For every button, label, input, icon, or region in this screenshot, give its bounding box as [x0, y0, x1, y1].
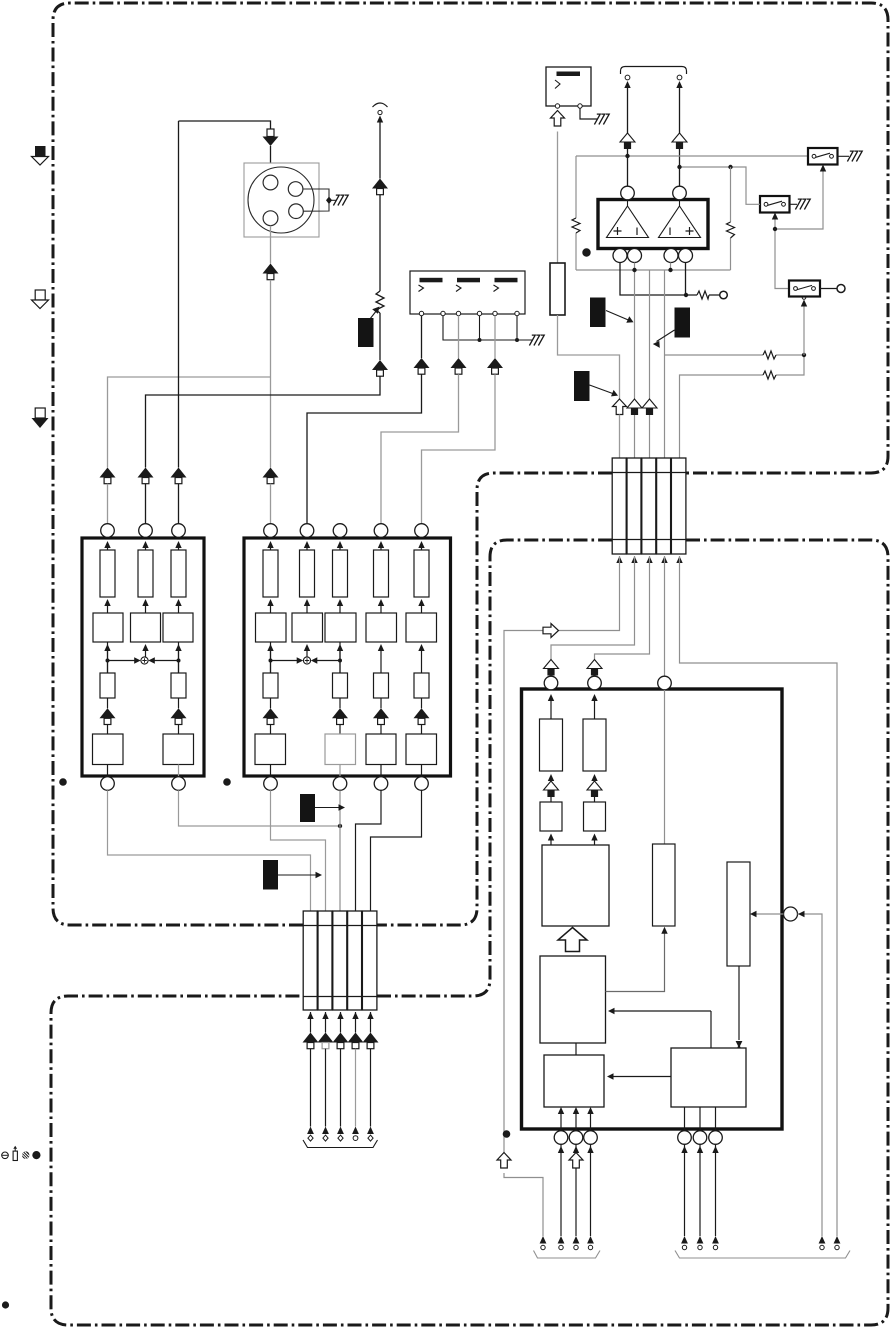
wire: jack ground bus: [443, 316, 533, 340]
boxM col4 gain block: [366, 613, 397, 642]
box1 col3 trim block: [171, 673, 186, 698]
single jack (line out) box: [546, 67, 591, 106]
switch S1 (mute): [808, 148, 838, 165]
connector arrow feeding box1 col2: [138, 468, 154, 484]
boxM col3 gain block: [325, 613, 356, 642]
wire: resistor down to connector arrow: [379, 313, 381, 360]
boxM sum node: [303, 657, 310, 664]
boxM col4 bottom pin: [374, 777, 388, 791]
wire: amp L- down across to R+ with sense resistor and test point: [620, 263, 720, 296]
analog block box 2 (middle): [244, 538, 451, 776]
boxM col1 bottom pin: [264, 777, 278, 791]
jack chevron 1: [419, 285, 424, 292]
leader arrow from blob: [606, 311, 630, 321]
wire decoder2 to latch2 with arrow: [591, 774, 597, 781]
decoder block 2: [583, 719, 606, 771]
wire: hollow arrow to CN1 col1: [619, 415, 621, 459]
wire: jack line 2 elbow to middle IC col4: [381, 374, 459, 524]
jack contact bar 2: [457, 278, 480, 283]
ground (S1): [847, 151, 862, 161]
boxM col1 top pin: [264, 524, 278, 538]
leader arrow from blob: [278, 874, 318, 876]
block A (signal processor): [542, 845, 609, 926]
arrowheads into CN1 from below: [616, 556, 622, 563]
block C bottom pins wires with arrows: [561, 1114, 591, 1131]
arrow (hollow head, filled square) HP R: [672, 133, 687, 149]
boxM col2 wire filter to gain block: [304, 599, 310, 606]
single jack chevron: [555, 80, 560, 89]
block F (motor control): [671, 1048, 746, 1107]
connector arrow feeding box1 col1: [100, 468, 116, 484]
level block (tall narrow): [550, 263, 565, 315]
brace under CN2 terminals: [303, 1140, 378, 1148]
wire: CN1 col2 to DSP pin1: [551, 556, 635, 660]
connector arrow on mic line: [372, 179, 388, 195]
boxM col3 wire filter to gain block: [337, 599, 343, 606]
wire: long left bus elbow to terminal: [504, 1173, 543, 1236]
boxM col5 input filter block: [421, 548, 423, 550]
arrowhead on HP L line: [624, 81, 630, 88]
wire: arrow to middle IC col1 pin: [270, 484, 272, 524]
wire: right feedback branch with resistor: [730, 167, 732, 270]
boxM col4 wire trim to arrow: [380, 698, 382, 708]
junction dot: [684, 293, 688, 297]
wire: S2 left feed: [746, 196, 760, 204]
wire: S1 to ground: [838, 155, 850, 157]
boxM col5 bottom pin: [415, 777, 429, 791]
box1 col1 bottom pin: [101, 777, 115, 791]
wire decoder1 to latch1 with arrow: [548, 774, 554, 781]
analog block box 1 (left): [82, 538, 204, 776]
boxM col3 wire gain block down: [337, 644, 343, 651]
round connector pin 2 (right-top): [288, 182, 303, 197]
wire: S2 to ground: [790, 203, 798, 205]
box1 col3 input filter block: [178, 548, 180, 550]
latch block 1: [540, 802, 562, 831]
ground (round connector shield): [333, 195, 348, 205]
box1 col3 internal connector arrow: [171, 708, 187, 724]
boxM col5 top pin: [415, 524, 429, 538]
wire: mic line to variable resistor: [379, 195, 381, 291]
block F bottom pins wires: [685, 1107, 716, 1131]
box1 col3 top pin: [172, 524, 186, 538]
boxM sum node left branch: [271, 642, 300, 673]
wire: amp L+ down to CN1 col2: [634, 263, 636, 400]
boxM col5 wire gain block down: [418, 644, 424, 651]
connector arrow feeding middle IC col1: [263, 468, 279, 484]
arrow (hollow head, filled square) into pin1: [544, 660, 559, 676]
box1 col1 input arrow: [104, 541, 110, 548]
boxM col1 wire trim to arrow: [270, 698, 272, 708]
test point circle: [720, 291, 728, 299]
wire: boxM pin4 to CN2 col4: [356, 790, 382, 911]
round connector pin 3 (right-bottom): [289, 204, 304, 219]
boxM col1 input filter block: [270, 548, 272, 550]
wire: pins 2,3 to ground: [303, 189, 336, 211]
DSP top pin 1: [544, 676, 558, 690]
wire: supply rail upper (to mute switch S1): [576, 155, 808, 157]
test point circle (S3): [837, 285, 845, 293]
wire: round connector pin 4 down: [270, 226, 272, 264]
box1 col3 wire gain block down: [175, 644, 181, 651]
box1 col1 wire driver to bottom pin: [107, 765, 109, 778]
box1 col3 gain block: [163, 613, 193, 642]
wire: HP R line down: [679, 87, 681, 133]
pin1 arrow into decoder: [548, 694, 554, 701]
switch S2: [760, 196, 790, 213]
label blob (left of CN2): [263, 860, 278, 890]
wire: round connector top feed elbow: [179, 121, 271, 129]
jack contact bar 1: [420, 278, 443, 283]
boxM col5 driver block: [406, 734, 437, 765]
single jack contact bar: [557, 72, 581, 77]
block D (tall narrow): [653, 844, 676, 926]
terminal symbols below CN2 wires: [307, 1127, 314, 1142]
connector arrow below round connector: [263, 264, 279, 280]
legend: hatched circle: [22, 1151, 29, 1158]
boxM col2 input filter block: [306, 548, 308, 550]
arrowhead on HP R line: [676, 81, 682, 88]
boxM col3 wire trim to arrow: [339, 698, 341, 708]
board outline 2 (bottom/right L-shaped dash-dot border): [51, 540, 888, 1325]
jack contact bar 3: [495, 278, 518, 283]
junction dot gray bus: [632, 268, 636, 272]
boxM col3 wire driver to bottom pin: [339, 765, 341, 778]
wire: arrow to box1 col3 pin: [178, 484, 180, 524]
boxM col1 input arrow: [267, 541, 273, 548]
wire: jack line 1 elbow to middle IC col2: [307, 374, 422, 524]
off-page arrow (hollow square, filled head) on left border: [32, 408, 49, 428]
connector arrow jack line 2: [451, 358, 467, 374]
connector arrow jack line 1: [414, 358, 430, 374]
box1 col3 bottom pin: [172, 777, 186, 791]
arrow (hollow head, filled square) above CN1 col2: [627, 399, 642, 415]
wire: CN1 col1 down, hollow right arrow, to long left bus: [504, 556, 620, 1153]
box1 col3 input arrow: [175, 541, 181, 548]
hollow arrow on long left bus: [497, 1153, 511, 1169]
boxM col1 wire driver to bottom pin: [270, 765, 272, 778]
DSP top pin 2: [588, 676, 602, 690]
boxM col3 bottom pin: [333, 777, 347, 791]
junction dot rail/HP L: [625, 154, 629, 158]
marker dot left of box1: [59, 778, 67, 786]
wire: arrow to round connector pin 1: [270, 146, 272, 176]
wire: arrow to box1 col2 pin: [145, 484, 147, 524]
arrow (hollow head, filled square) above CN1 col3: [642, 399, 657, 415]
op-amp R polarity marks: [670, 227, 694, 235]
pin2 arrow into decoder 2: [591, 694, 597, 701]
box1 col1 top pin: [101, 524, 115, 538]
wire: CN1 col5 right bus down right side: [680, 556, 838, 1236]
resistor (right feedback): [727, 222, 735, 238]
wire: box1 pin1 to CN2 col1: [108, 790, 311, 911]
wire: single jack tip down to level block: [557, 132, 559, 264]
microphone symbol (arc + contact) at top of mic line: [373, 103, 388, 107]
brace under right terminal group: [675, 1251, 850, 1259]
op-amp triangle L: [607, 206, 649, 238]
boxM col2 input arrow: [304, 541, 310, 548]
junction dots on ground bus: [478, 338, 482, 342]
box1 col3 wire trim to arrow: [178, 698, 180, 708]
box1 col2 wire from sum node: [142, 644, 148, 651]
boxM col1 driver block: [255, 734, 286, 765]
box1 col3 wire driver to bottom pin: [178, 765, 180, 778]
boxM col3 input arrow: [337, 541, 343, 548]
headphone output contact L: [625, 75, 630, 80]
box1 col1 internal connector arrow: [100, 708, 116, 724]
wire: detect node up to switch S3: [803, 304, 805, 355]
off-page arrow (filled square, hollow head) on left border: [32, 146, 49, 165]
terminals (right group): [681, 1236, 688, 1250]
arrow from right pin into block E: [754, 913, 784, 915]
label blob (CN1 lower-left): [574, 371, 590, 401]
boxM col5 trim block: [414, 673, 429, 698]
junction dot: [668, 268, 672, 272]
wire: arrow to CN1 col3: [649, 415, 651, 458]
connector arrows under CN2: [303, 1033, 319, 1049]
junction dot control line: [773, 227, 777, 231]
wire: level block elbow down to CN1 col1 hollow arrow: [558, 315, 620, 399]
wire: box1 col1 arrow to pin: [107, 484, 109, 524]
block E (right tall narrow): [727, 862, 750, 966]
arrowhead up on mic line: [377, 116, 383, 123]
boxM col5 wire trim to arrow: [421, 698, 423, 708]
leader arrow from blob: [590, 385, 615, 394]
hollow signal arrow below single jack: [551, 111, 565, 127]
boxM sum node right branch: [315, 642, 341, 673]
wire: rail 2 from HP R to S2 feed corner: [680, 167, 747, 196]
wire: pin3 down to block D: [664, 690, 666, 844]
boxM col1 wire gain block down: [267, 644, 273, 651]
DSP right pin circle: [784, 907, 798, 921]
boxM col5 gain block: [406, 613, 437, 642]
box1 col3 driver block: [163, 734, 194, 765]
box1 col1 wire filter to gain block: [104, 599, 110, 606]
boxM col2 gain block: [292, 613, 323, 642]
round connector (4-pin) outer box: [244, 163, 319, 237]
wire: to amp pin L: [627, 149, 629, 187]
box1 col1 wire gain block down: [104, 644, 110, 651]
box1 col1 gain block: [93, 613, 123, 642]
wire: mic line upper: [379, 122, 381, 179]
junction dot rail2/HP R: [677, 165, 681, 169]
box1 col2 input arrow: [142, 541, 148, 548]
leader arrow from blob: [315, 807, 341, 809]
boxM col4 driver block: [366, 734, 396, 765]
marker dot left of amp: [582, 248, 590, 256]
round connector pin 1 (top-left): [263, 175, 278, 190]
wire: arrow to CN1 col2: [634, 415, 636, 458]
resistor (detect lower): [763, 371, 776, 379]
marker dot left of DSP bottom corner: [503, 1130, 511, 1138]
headphone output contact R: [677, 75, 682, 80]
board-to-board connector CN2: [303, 911, 377, 1010]
hollow right arrow on col1 bus: [543, 624, 559, 638]
wire: gray elbow to box1 col1 and down to middle IC col1: [108, 280, 271, 468]
decoder block 1: [540, 719, 563, 771]
boxM col1 internal connector arrow: [263, 708, 279, 724]
single jack pins: [555, 104, 559, 108]
wires below CN2 to connector arrows: [310, 1012, 312, 1033]
boxM col4 wire driver to bottom pin: [380, 765, 382, 778]
wire: jack line 3 elbow to middle IC col5: [422, 374, 496, 524]
label blob (CN1 upper-right): [675, 308, 691, 338]
arrow (hollow head, filled square) into pin2: [587, 660, 602, 676]
boxM col5 input arrow: [418, 541, 424, 548]
resistor (detect upper): [763, 351, 776, 359]
boxM col1 wire filter to gain block: [267, 599, 273, 606]
wire: CN1 col3 to DSP pin2: [595, 556, 650, 660]
connector arrow into round connector top pin: [263, 129, 279, 146]
amp output pins R pair: [664, 249, 678, 263]
block C (driver): [544, 1055, 604, 1107]
boxM col4 wire filter to gain block: [378, 599, 384, 606]
wire: jack tip 2 down: [458, 316, 460, 358]
wire: HP L line down: [627, 87, 629, 133]
arrow (hollow head, filled square) HP L: [620, 133, 635, 149]
boxM col4 input arrow: [378, 541, 384, 548]
wire: CN1 col5 up and right through resistor: [680, 355, 805, 458]
ground (single jack): [594, 114, 609, 124]
wire: arrow to pin1: [550, 676, 552, 678]
boxM col5 internal connector arrow: [414, 708, 430, 724]
box1 col1 wire trim to arrow: [107, 698, 109, 708]
wire: S3 to test point: [820, 288, 837, 290]
wires from arrows down to board terminals: [310, 1049, 312, 1127]
brace under left terminal group: [534, 1251, 601, 1259]
wire: left feedback branch with resistor: [575, 156, 577, 270]
switch S3 (HP detect): [789, 281, 820, 297]
boxM col3 trim block: [333, 673, 348, 698]
wire: CN1 col4 straight to DSP pin3: [664, 556, 666, 677]
box1 col2 wire filter to gain block: [142, 599, 148, 606]
junction dot rail2/feedback resistor: [728, 165, 732, 169]
wire: block E bottom to block F top: [738, 966, 740, 1040]
boxM col3 input filter block: [339, 548, 341, 550]
wire: mic line elbow to box1 col2: [146, 376, 381, 467]
wires latches into block A: [548, 834, 554, 841]
box1 col1 input filter block: [107, 548, 109, 550]
wire: boxM pin5 to CN2 col5: [371, 790, 422, 911]
connector arrow jack line 3: [487, 358, 503, 374]
boxM col3 internal connector arrow: [332, 708, 348, 724]
wire: motor drive pins down to terminals: [560, 1145, 562, 1236]
wire: amp R- stub to gray bus: [670, 263, 672, 271]
hollow arrow on drive line: [569, 1153, 583, 1169]
ground (jack sleeve): [529, 335, 544, 345]
boxM col4 top pin: [374, 524, 388, 538]
block F bottom pin circles: [678, 1131, 692, 1145]
boxM col3 top pin: [333, 524, 347, 538]
board outline 1 (top/left L-shaped dash-dot border): [53, 3, 888, 925]
junction dot: [338, 824, 342, 828]
wire: jack tip 3 down: [494, 316, 496, 358]
S3 bottom contact: [802, 296, 806, 300]
off-page arrow (all hollow) on left border: [32, 290, 49, 309]
terminals (far right pair): [819, 1236, 826, 1250]
legend: battery/trimmer icon: [13, 1151, 17, 1160]
op-amp triangle R: [659, 206, 701, 238]
resistor (sense): [697, 291, 709, 299]
label blob (mic level): [358, 318, 374, 347]
boxM col5 wire filter to gain block: [418, 599, 424, 606]
boxM col4 internal connector arrow: [373, 708, 389, 724]
ground (S2): [795, 199, 810, 209]
jack chevron 3: [494, 285, 499, 292]
boxM col1 trim block: [263, 673, 278, 698]
boxM col2 top pin: [300, 524, 314, 538]
wire: detect line down to CN1 col4 and right through resistor: [665, 270, 805, 458]
bracket above headphone outputs: [621, 67, 687, 75]
wire: block B bottom to block C: [575, 1043, 577, 1055]
boxM col5 wire driver to bottom pin: [421, 765, 423, 778]
wire: block F pins down to terminals: [684, 1145, 686, 1236]
junction diamond on ground lead: [326, 197, 332, 205]
amp input pin circle R: [673, 186, 687, 200]
round connector pin 4 (bottom-left): [263, 211, 278, 226]
wire: boxM pin1 to CN2 col2: [271, 790, 326, 911]
terminals (left group): [540, 1236, 547, 1250]
amp input pin circle L: [621, 186, 635, 200]
round connector body circle: [248, 167, 314, 233]
wire: to amp pin R: [679, 149, 681, 187]
wiper arrow onto resistor: [366, 310, 377, 324]
op-amp L polarity marks: [614, 227, 638, 235]
junction dot detect node: [802, 353, 806, 357]
latch block 2: [584, 802, 606, 831]
wire: block F top to block B right arrow: [612, 1011, 711, 1048]
marker dot bottom-left: [2, 1301, 9, 1308]
box1 col2 input filter block: [145, 548, 147, 550]
box1 sum node left branch: [108, 642, 138, 673]
wire: control line to S1/S2: [775, 169, 823, 289]
legend: minus circle: [2, 1152, 9, 1159]
wire: block B right to block D bottom: [606, 932, 665, 992]
box1 col1 driver block: [93, 734, 124, 765]
amp output pins L pair: [613, 249, 627, 263]
wire: box1 col3 long feed from top elbow: [178, 121, 180, 468]
box1 col2 top pin: [139, 524, 153, 538]
3-gang jack box: [410, 271, 525, 314]
wire: lower gray bus under amp: [576, 269, 731, 271]
boxM col2 wire from sum node: [304, 644, 310, 651]
wire: box1 pin3 joins boxM col3 line: [179, 790, 341, 826]
wire: block F left to block C right arrow: [611, 1076, 671, 1078]
box1 col1 trim block: [100, 673, 115, 698]
arrowhead into S2: [772, 213, 778, 220]
block B (servo): [540, 956, 606, 1043]
legend: filled circle: [32, 1151, 40, 1159]
box1 sum node right branch: [152, 642, 179, 673]
wire: boxM pin3 to CN2 col3: [339, 790, 341, 911]
label blob (CN1 upper-left): [590, 298, 606, 328]
wire: jack sleeve to ground: [580, 108, 597, 119]
arrowhead into S3: [801, 300, 807, 307]
boxM col4 input filter block: [380, 548, 382, 550]
boxM col4 wire gain block down: [378, 644, 384, 651]
arrowheads into CN2 from below: [307, 1012, 313, 1019]
wire: gray bus corner down to CN1 col3: [649, 270, 651, 399]
DSP box (bottom right thick box): [522, 689, 783, 1129]
arrowhead into S1: [820, 165, 826, 172]
jack chevron 2: [456, 285, 461, 292]
boxM col3 driver block: [325, 734, 356, 765]
box1 col3 wire filter to gain block: [175, 599, 181, 606]
board-to-board connector CN1: [612, 458, 686, 554]
wire: external line into right pin: [798, 914, 823, 1236]
hollow arrow between block B and block A: [558, 928, 587, 952]
block C bottom pin circles: [554, 1131, 568, 1145]
